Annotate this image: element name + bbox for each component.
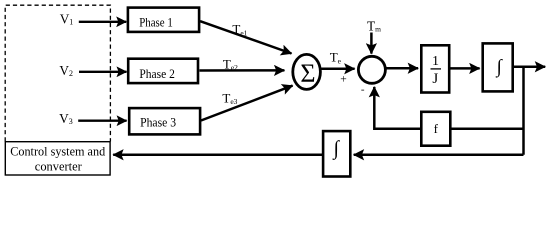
wire 1/J to integrator xyxy=(451,67,480,70)
block f xyxy=(421,112,450,146)
svg-text:converter: converter xyxy=(35,159,83,174)
svg-text:f: f xyxy=(434,121,439,136)
svg-text:-: - xyxy=(361,84,365,96)
wire Phase 2 to summer xyxy=(200,69,285,72)
wire Tm to comparator xyxy=(370,33,373,54)
wire bottom integrator to control box xyxy=(113,154,323,157)
wire f block to comparator (feedback) xyxy=(374,87,421,129)
box: Control system and converter xyxy=(5,142,110,175)
svg-text:Σ: Σ xyxy=(300,59,315,88)
svg-text:Tm: Tm xyxy=(367,19,381,34)
wire Phase 3 to summer xyxy=(201,86,293,121)
svg-text:Te2: Te2 xyxy=(223,56,238,72)
svg-text:Phase 1: Phase 1 xyxy=(139,14,173,29)
block Phase 1 xyxy=(128,8,199,32)
wire Phase 1 to summer xyxy=(200,21,291,53)
wire output branch to bottom integrator xyxy=(354,154,524,157)
svg-text:V1: V1 xyxy=(60,11,74,26)
summer Σ xyxy=(293,54,321,89)
svg-text:V2: V2 xyxy=(59,63,73,78)
block Phase 2 xyxy=(128,59,198,83)
wire integrator to output xyxy=(513,66,545,69)
block 1/J xyxy=(421,45,449,92)
svg-text:Te1: Te1 xyxy=(232,21,247,37)
comparator junction xyxy=(358,56,385,83)
integrator block (top) xyxy=(483,43,513,91)
wire summer to comparator xyxy=(322,67,355,70)
svg-text:Phase 3: Phase 3 xyxy=(140,114,176,129)
block Phase 3 xyxy=(129,108,200,134)
integrator block (bottom) xyxy=(323,131,350,176)
svg-text:J: J xyxy=(432,71,438,87)
svg-text:+: + xyxy=(340,74,347,86)
wire output branch vertical xyxy=(522,67,525,155)
dashed enclosure (control system boundary) xyxy=(5,5,110,141)
wire V3 to Phase 3 xyxy=(78,119,126,121)
wire V1 to Phase 1 xyxy=(79,21,126,23)
wire V2 to Phase 2 xyxy=(79,71,127,73)
wire comparator to 1/J block xyxy=(386,67,419,70)
svg-text:Te3: Te3 xyxy=(222,90,237,106)
svg-text:V3: V3 xyxy=(59,111,73,126)
svg-text:Control system and: Control system and xyxy=(10,144,105,159)
wire output branch to f block xyxy=(452,128,525,131)
svg-text:Te: Te xyxy=(330,50,342,66)
svg-text:Phase 2: Phase 2 xyxy=(139,66,175,81)
svg-text:1: 1 xyxy=(432,54,439,69)
